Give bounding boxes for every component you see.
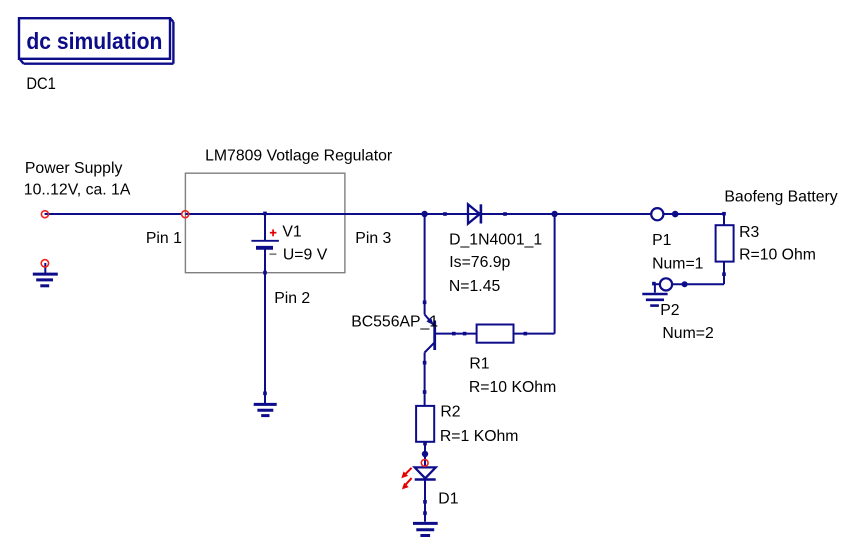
- svg-text:P2: P2: [660, 302, 679, 319]
- svg-text:P1: P1: [652, 232, 672, 249]
- svg-text:10..12V, ca. 1A: 10..12V, ca. 1A: [24, 181, 131, 198]
- svg-text:R1: R1: [469, 355, 489, 372]
- svg-text:LM7809 Votlage Regulator: LM7809 Votlage Regulator: [205, 148, 392, 165]
- svg-text:Power Supply: Power Supply: [25, 160, 123, 177]
- svg-text:BC556AP_1: BC556AP_1: [351, 313, 438, 330]
- svg-text:Pin 1: Pin 1: [146, 230, 182, 247]
- svg-text:R=10 Ohm: R=10 Ohm: [739, 246, 816, 263]
- svg-text:Is=76.9p: Is=76.9p: [449, 254, 510, 271]
- svg-text:R2: R2: [440, 403, 460, 420]
- svg-text:R=1 KOhm: R=1 KOhm: [440, 428, 519, 445]
- svg-text:U=9 V: U=9 V: [283, 246, 328, 263]
- svg-text:R=10 KOhm: R=10 KOhm: [469, 379, 556, 396]
- svg-text:D_1N4001_1: D_1N4001_1: [449, 231, 542, 248]
- svg-text:dc simulation: dc simulation: [26, 28, 162, 54]
- svg-text:Pin 2: Pin 2: [274, 290, 310, 307]
- svg-text:V1: V1: [282, 224, 302, 241]
- svg-text:DC1: DC1: [26, 74, 56, 93]
- svg-text:N=1.45: N=1.45: [449, 278, 501, 295]
- svg-text:Num=2: Num=2: [662, 325, 713, 342]
- svg-text:Pin 3: Pin 3: [355, 230, 391, 247]
- svg-text:R3: R3: [739, 224, 759, 241]
- svg-text:Baofeng Battery: Baofeng Battery: [724, 189, 837, 206]
- svg-text:D1: D1: [438, 491, 458, 508]
- svg-text:Num=1: Num=1: [652, 256, 704, 273]
